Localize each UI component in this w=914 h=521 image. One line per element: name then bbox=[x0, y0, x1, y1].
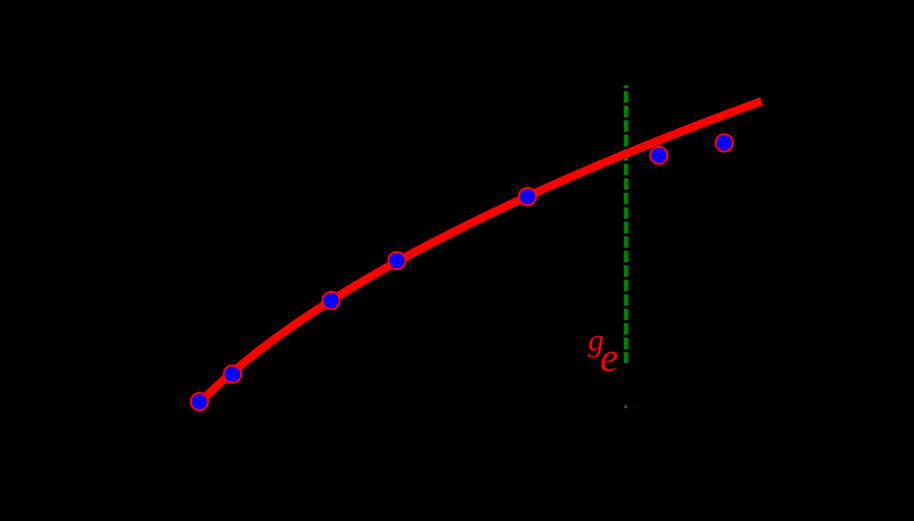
data point 3 bbox=[322, 292, 339, 309]
svg-text:e: e bbox=[600, 334, 618, 380]
data point 7 bbox=[716, 134, 733, 151]
green tick at bottom bbox=[624, 405, 627, 408]
data point 2 bbox=[224, 365, 241, 382]
red fitted curve bbox=[199, 101, 761, 403]
green dashed vertical line bbox=[624, 85, 629, 363]
data point 4 bbox=[388, 252, 405, 269]
data point 1 bbox=[191, 393, 208, 410]
data point 5 bbox=[519, 188, 536, 205]
data point 6 bbox=[650, 147, 667, 164]
